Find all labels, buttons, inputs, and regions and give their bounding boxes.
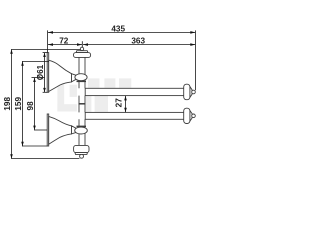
svg-text:72: 72 [59,37,69,46]
svg-text:Ø61: Ø61 [36,64,45,80]
svg-text:159: 159 [14,97,23,111]
svg-text:98: 98 [26,101,35,111]
svg-text:198: 198 [3,97,12,111]
svg-text:435: 435 [111,25,125,34]
svg-text:363: 363 [131,37,145,46]
svg-text:27: 27 [114,98,123,108]
